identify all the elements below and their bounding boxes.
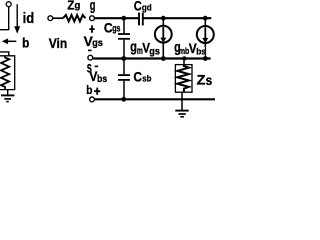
capacitor Cgs bbox=[118, 33, 130, 35]
wire source rail bbox=[93, 57, 210, 59]
wire (box to ground) bbox=[7, 90, 9, 96]
svg-text:gd: gd bbox=[142, 2, 152, 12]
svg-text:g: g bbox=[90, 0, 96, 14]
junction node (source/Zs) bbox=[182, 56, 186, 60]
wire (Cgs down to source rail) bbox=[123, 40, 125, 58]
svg-text:gs: gs bbox=[92, 38, 103, 49]
svg-text:C: C bbox=[134, 0, 142, 14]
svg-text:b: b bbox=[22, 35, 29, 51]
svg-text:gs: gs bbox=[149, 46, 160, 57]
arrow b (left-pointing) bbox=[7, 40, 16, 42]
wire top rail (Cgd right plate to end) bbox=[144, 17, 212, 19]
svg-text:bs: bs bbox=[196, 46, 206, 56]
ground (right) bbox=[175, 110, 188, 112]
current arrow id bbox=[16, 4, 18, 27]
svg-text:g: g bbox=[130, 39, 137, 56]
svg-text:sb: sb bbox=[142, 74, 152, 84]
junction node (drain/gmVgs) bbox=[161, 16, 166, 21]
wire (rail down to gmbVbs source) bbox=[204, 19, 206, 26]
svg-text:gs: gs bbox=[112, 24, 121, 35]
svg-text:b: b bbox=[86, 83, 92, 97]
wire (Vin to Zg) bbox=[53, 17, 63, 19]
wire (rail down to gmVgs source) bbox=[162, 19, 164, 26]
wire (Zs box to ground, crossing bulk rail) bbox=[181, 92, 183, 110]
plus (Vbs, at b) bbox=[94, 88, 100, 95]
resistor Zg bbox=[63, 15, 85, 21]
box around left resistor (partial, cut at left edge) bbox=[0, 56, 15, 90]
label gmbVbs (white backing over circle edge) bbox=[174, 44, 197, 56]
wire (gate junction down to Cgs) bbox=[123, 19, 125, 33]
terminal Vin bbox=[48, 16, 53, 21]
junction node (source/gmbVbs) bbox=[203, 56, 208, 61]
node g terminal bbox=[90, 16, 95, 21]
plus (Vgs) bbox=[89, 25, 94, 32]
svg-text:Vin: Vin bbox=[49, 36, 67, 51]
svg-text:Z: Z bbox=[197, 72, 206, 87]
junction node (source/Cgs) bbox=[121, 56, 126, 61]
label gmVgs (white backing over circle edge) bbox=[130, 44, 155, 56]
wire bulk rail bbox=[95, 98, 215, 100]
wire (corner into resistor box) bbox=[0, 52, 9, 56]
terminal s bbox=[88, 55, 93, 60]
wire (from terminal down, corner to left edge) bbox=[0, 7, 9, 30]
wire (source rail to Zs box) bbox=[183, 59, 185, 65]
minus (Vbs, at s) bbox=[95, 66, 99, 68]
current source gmVgs bbox=[155, 26, 172, 43]
wire (gmVgs source to source rail) bbox=[162, 43, 164, 57]
svg-text:g: g bbox=[75, 0, 81, 11]
wire top rail (g to Cgd left plate) bbox=[95, 17, 139, 19]
terminal (output node, left fragment) bbox=[6, 2, 11, 7]
wire (Csb down to bulk rail) bbox=[123, 81, 125, 99]
capacitor Csb bbox=[118, 74, 130, 76]
wire (source rail down to Csb) bbox=[123, 59, 125, 74]
current source gmbVbs bbox=[197, 26, 214, 43]
impedance Zs box bbox=[175, 65, 192, 93]
terminal b bbox=[90, 97, 95, 102]
junction node (source/gmVgs) bbox=[161, 56, 166, 61]
resistor Zs (zigzag inside box) bbox=[177, 65, 189, 93]
wire (gmbVbs source to source rail) bbox=[204, 44, 206, 58]
junction node (drain/gmbVbs) bbox=[203, 16, 208, 21]
svg-text:s: s bbox=[206, 73, 213, 88]
junction node (gate/Cgs) bbox=[121, 16, 126, 21]
junction node (bulk/Csb) bbox=[121, 97, 126, 102]
ground (left) bbox=[1, 94, 14, 96]
svg-text:id: id bbox=[23, 11, 35, 27]
minus (Vgs) bbox=[88, 50, 92, 52]
svg-text:bs: bs bbox=[97, 74, 108, 85]
svg-text:C: C bbox=[133, 69, 142, 85]
resistor (left load, partial) bbox=[1, 56, 9, 90]
capacitor Cgd bbox=[138, 13, 140, 26]
